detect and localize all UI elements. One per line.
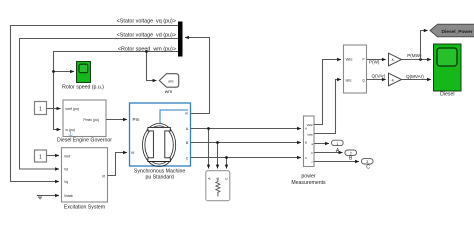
wire ground to excitation Vstab	[43, 195, 59, 197]
wire governor Pmec to machine Pm	[106, 119, 127, 121]
subsystem Diesel Engine Governor	[63, 100, 106, 137]
svg-text:Vd: Vd	[64, 168, 68, 172]
junction P branch	[419, 58, 422, 61]
svg-text:Vf: Vf	[131, 151, 134, 155]
machine icon ellipse ring	[143, 124, 176, 167]
wire machine m to bus selector input	[185, 38, 210, 114]
svg-text:-K-: -K-	[391, 79, 395, 83]
svg-text:B: B	[305, 141, 307, 145]
wire vq output of bus selector: top horizontal then left vertical then into Vq	[11, 26, 179, 182]
svg-text:1: 1	[336, 142, 338, 146]
wire constant to excitation Vref	[47, 155, 60, 157]
svg-text:Pmec (pu): Pmec (pu)	[83, 118, 99, 122]
outport 2	[345, 150, 357, 156]
wire drop phase B to load	[217, 143, 219, 169]
svg-text:power: power	[301, 173, 315, 179]
wire gain1 to scope	[402, 59, 432, 61]
wire Iabc to power block	[314, 80, 341, 134]
svg-text:<Stator voltage vq (pu)>: <Stator voltage vq (pu)>	[117, 19, 176, 25]
wire P to gain1	[367, 59, 386, 61]
goto block Diesel_Power	[430, 24, 474, 37]
junction scope branch	[52, 70, 55, 73]
svg-text:Diesel: Diesel	[440, 92, 454, 98]
subsystem power measurements	[304, 116, 315, 167]
wire Q to gain2	[367, 79, 386, 81]
block P Q power measurement	[344, 45, 367, 93]
svg-text:A: A	[305, 126, 307, 130]
svg-text:<Stator voltage vd (pu)>: <Stator voltage vd (pu)>	[117, 33, 176, 39]
block three-phase load	[206, 171, 230, 201]
wire wm output of bus selector	[54, 52, 179, 130]
svg-text:m: m	[185, 112, 188, 116]
svg-text:Iabc: Iabc	[308, 132, 314, 136]
junction phase C	[225, 156, 228, 159]
wire excitation Vf to machine Vf	[108, 153, 128, 176]
junction phase B	[216, 141, 219, 144]
wire phase B	[191, 142, 302, 144]
scope Rotor speed	[77, 62, 91, 83]
ground symbol	[37, 196, 43, 199]
svg-text:C: C	[366, 164, 370, 170]
wire vd output of bus selector	[20, 39, 179, 170]
block Synchronous Machine	[130, 103, 191, 167]
junction wm branch	[145, 50, 148, 53]
svg-text:P(MW): P(MW)	[407, 53, 422, 58]
svg-text:C: C	[305, 156, 307, 160]
svg-text:C: C	[186, 156, 189, 160]
svg-text:1: 1	[39, 154, 42, 160]
wire phase A machine to measurements	[191, 128, 302, 130]
svg-text:wm: wm	[165, 90, 172, 95]
wire drop phase C to load	[226, 158, 228, 169]
svg-text:wm: wm	[168, 80, 173, 84]
junction phase A	[207, 127, 210, 130]
svg-text:Pm: Pm	[133, 117, 140, 122]
subsystem Excitation System	[62, 148, 108, 202]
svg-text:Rotor speed (p.u.): Rotor speed (p.u.)	[62, 84, 104, 90]
svg-text:1: 1	[39, 106, 42, 112]
outport 1	[332, 140, 344, 146]
wire c to outport 3	[314, 161, 359, 163]
svg-text:Vabc: Vabc	[307, 123, 314, 127]
svg-text:Vstab: Vstab	[64, 194, 73, 198]
svg-text:Vabc: Vabc	[346, 58, 353, 62]
wire a to outport 1	[314, 143, 329, 145]
svg-text:B: B	[349, 155, 353, 161]
wire drop phase A to load	[208, 129, 210, 169]
svg-text:Q(VAr): Q(VAr)	[372, 73, 386, 78]
wire b to outport 2	[314, 152, 343, 154]
svg-text:P: P	[363, 58, 365, 62]
constant block 1 (Vref)	[35, 150, 47, 162]
wire constant to governor wref	[47, 108, 61, 110]
gain block 1	[389, 53, 402, 66]
wire gain2 to scope	[402, 79, 432, 81]
svg-text:Vf: Vf	[102, 175, 105, 179]
wire branch wm to rotor speed scope	[54, 71, 75, 73]
load resistor icon	[216, 180, 220, 197]
svg-text:Measurements: Measurements	[291, 180, 326, 186]
constant block 1 (wref)	[35, 102, 47, 115]
wire branch P to goto	[421, 31, 428, 60]
machine icon line to m port	[160, 110, 188, 124]
svg-text:Q(MVAr): Q(MVAr)	[406, 74, 424, 79]
svg-text:Iabc: Iabc	[346, 78, 352, 82]
wire branch wm to goto wm	[147, 52, 157, 81]
svg-text:Diesel_Power: Diesel_Power	[442, 29, 473, 35]
svg-text:⚓: ⚓	[68, 132, 73, 137]
svg-text:pu Standard: pu Standard	[145, 174, 173, 180]
svg-text:Excitation System: Excitation System	[64, 205, 105, 211]
scope Diesel	[434, 44, 462, 91]
svg-text:B: B	[216, 178, 220, 180]
bus selector bar	[178, 22, 183, 57]
outport 3	[361, 159, 373, 165]
svg-text:Vq: Vq	[64, 180, 68, 184]
svg-text:Diesel Engine Governor: Diesel Engine Governor	[57, 138, 112, 144]
svg-text:P(W): P(W)	[369, 60, 380, 65]
machine icon I-beam	[148, 127, 170, 161]
wire Vabc to power block	[314, 60, 341, 125]
gain block 2	[389, 73, 402, 86]
goto block wm	[159, 74, 178, 88]
svg-text:-K-: -K-	[391, 58, 395, 62]
svg-text:wref (pu): wref (pu)	[66, 107, 79, 111]
wire phase C	[191, 157, 302, 159]
svg-text:Vref: Vref	[64, 155, 70, 159]
